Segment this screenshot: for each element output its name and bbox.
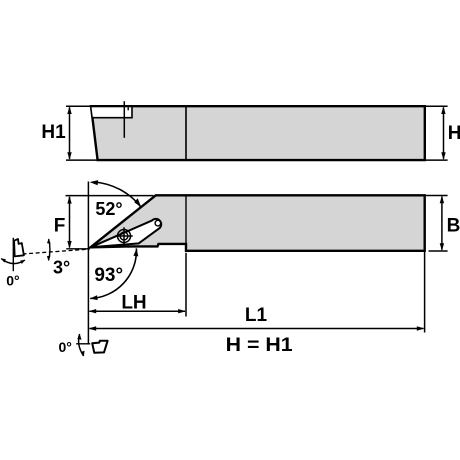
dimension L1 bbox=[89, 252, 425, 333]
head/shank divider line (side view) bbox=[185, 106, 187, 160]
svg-text:H: H bbox=[448, 123, 460, 144]
3deg dashed centerline bbox=[23, 249, 90, 254]
dimension LH bbox=[89, 253, 187, 317]
svg-text:52°: 52° bbox=[95, 199, 122, 219]
dimension B (right of plan view) bbox=[426, 196, 460, 252]
notch (insert pocket, side view) bbox=[92, 106, 133, 117]
dimension F bbox=[54, 196, 154, 249]
svg-text:0°: 0° bbox=[59, 339, 72, 355]
svg-text:H1: H1 bbox=[41, 122, 66, 143]
svg-text:0°: 0° bbox=[6, 273, 19, 289]
svg-text:F: F bbox=[54, 215, 66, 236]
svg-text:LH: LH bbox=[121, 293, 146, 314]
left insert icon (0deg side rake) bbox=[1, 238, 25, 289]
svg-text:B: B bbox=[447, 215, 460, 236]
dimension H1 (left) bbox=[41, 106, 101, 160]
dimension H (right) bbox=[426, 106, 460, 160]
clamp screw symbol bbox=[115, 227, 132, 244]
svg-text:L1: L1 bbox=[245, 305, 268, 326]
svg-text:3°: 3° bbox=[53, 257, 70, 277]
head/shank divider line (plan view) bbox=[185, 196, 187, 250]
3deg angle tick arc bbox=[47, 238, 70, 277]
svg-text:93°: 93° bbox=[94, 265, 123, 286]
svg-text:H = H1: H = H1 bbox=[226, 335, 293, 356]
holder body (side view) bbox=[91, 106, 425, 160]
holder body (plan view, with head) bbox=[91, 195, 425, 251]
93deg angle arc bbox=[90, 248, 139, 300]
52deg angle arc bbox=[90, 180, 142, 219]
pin / screw centerline (side view) bbox=[123, 101, 125, 138]
vertical extension line through tool tip bbox=[87, 182, 89, 344]
insert (V-style, plan view) bbox=[91, 219, 162, 247]
pocket corner relief hole bbox=[155, 220, 161, 226]
bottom insert icon (0deg back rake) bbox=[59, 334, 108, 357]
